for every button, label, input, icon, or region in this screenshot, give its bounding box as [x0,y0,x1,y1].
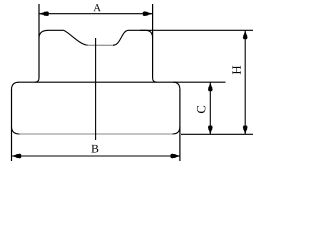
base slab top-left corner [12,82,20,89]
base slab top-right corner [173,82,180,89]
label C (rotated) [197,106,205,113]
dimension A right arrow [144,12,152,16]
top block right base fillet [153,78,157,82]
base slab bottom edge (gray) [20,133,173,135]
top block right wall + A extension line [152,4,154,78]
dimension H top arrow [243,31,247,38]
dimension A left arrow [40,12,48,16]
dimension C line [209,83,211,135]
top block top-right corner [146,30,153,38]
base slab bottom-right corner [173,127,180,135]
dimension H line [244,31,246,135]
dimension C bottom arrow [208,127,212,134]
dimension B line [12,155,180,157]
base slab left edge + B extension line [11,89,13,161]
top block top profile right of groove [113,30,146,45]
label A [93,4,100,11]
base slab right edge + B extension line [179,89,181,161]
dimension H bottom arrow [243,127,247,134]
top block top profile left of groove [39,30,88,45]
label B [91,145,98,153]
base slab bottom-left corner [12,127,20,135]
centerline [95,38,97,140]
label H (rotated) [232,66,240,74]
bottom extension line for C and H [181,133,253,135]
dimension B right arrow [172,154,180,158]
base slab top edge [19,81,226,83]
top block left wall + A extension line [38,4,40,78]
dimension A line [39,13,153,15]
top block left base fillet [35,78,39,82]
groove bottom line (gray) [86,44,114,46]
H top extension line [140,29,253,31]
dimension B left arrow [12,154,20,158]
dimension C top arrow [208,83,212,90]
